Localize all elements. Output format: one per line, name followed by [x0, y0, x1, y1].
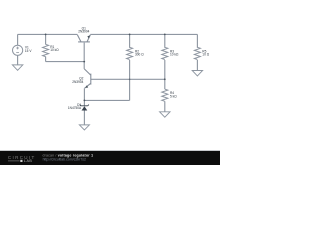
- wire Q1 base vertical: [83, 43, 85, 62]
- wire R4 top lead: [164, 79, 166, 89]
- junction crossing R2 leg / base wire: [129, 79, 131, 81]
- wire R1 top lead: [45, 34, 47, 44]
- svg-text:10 kΩ: 10 kΩ: [50, 48, 59, 52]
- wire top rail left (V1 to Q1 collector): [18, 33, 78, 35]
- ground below V1: [12, 65, 22, 70]
- junction node R3 top: [164, 34, 166, 36]
- wire R5 bottom lead: [196, 60, 198, 70]
- svg-text:2N3904: 2N3904: [78, 30, 89, 34]
- wire V1 top lead: [17, 34, 19, 45]
- wire R1 bottom to Q1 base node: [46, 61, 85, 63]
- junction node Q1 base / R1 / Q2 collector: [83, 61, 85, 63]
- junction node zener / Q2 emitter / R2 leg: [84, 100, 86, 102]
- svg-text:10 kΩ: 10 kΩ: [170, 53, 179, 57]
- junction node divider R3-R4 / Q2 base: [164, 78, 166, 80]
- resistor R3: [162, 47, 168, 59]
- wire V1 bottom lead: [17, 55, 19, 64]
- svg-text:2N3904: 2N3904: [72, 80, 83, 84]
- wire D1 top lead: [83, 100, 85, 105]
- wire D1 bottom lead: [83, 111, 85, 125]
- wire R5 top lead: [196, 34, 198, 47]
- wire R4 bottom lead: [164, 101, 166, 111]
- svg-text:http://circuitlab.com/c2kr7s2: http://circuitlab.com/c2kr7s2: [43, 158, 86, 162]
- wire zener node horizontal to R2 leg: [84, 99, 129, 101]
- resistor R5: [194, 47, 200, 59]
- arrow Q1 emitter (NPN): [87, 35, 90, 38]
- arrow Q2 emitter (NPN): [85, 85, 88, 88]
- svg-text:5 kΩ: 5 kΩ: [170, 95, 177, 99]
- wire Q2 emitter down to zener node: [83, 88, 85, 100]
- wire R2 top lead: [129, 34, 131, 47]
- zener diode D1: [82, 106, 88, 110]
- wire R2 bottom leg vertical: [129, 60, 131, 100]
- ground below R5: [192, 71, 202, 76]
- footer bar: [0, 149, 220, 152]
- svg-text:10 Ω: 10 Ω: [202, 53, 209, 57]
- wire node A to Q2 collector: [83, 62, 85, 69]
- resistor R1: [43, 44, 49, 56]
- svg-text:300 Ω: 300 Ω: [135, 53, 144, 57]
- ground below D1: [79, 125, 89, 130]
- transistor Q2: [84, 69, 91, 88]
- wire Q2 base to R3-R4 divider: [91, 78, 165, 80]
- transistor Q1: [77, 35, 90, 42]
- ground below R4: [160, 112, 170, 117]
- wire R1 bottom lead: [45, 57, 47, 62]
- svg-text:LAB: LAB: [24, 159, 32, 163]
- svg-text:15 V: 15 V: [25, 49, 32, 53]
- wire R3 top lead: [164, 34, 166, 47]
- svg-text:1N4750A: 1N4750A: [68, 106, 82, 110]
- wire R3 bottom lead: [164, 60, 166, 79]
- resistor R2: [127, 47, 133, 59]
- junction node R2 top: [129, 34, 131, 36]
- resistor R4: [162, 89, 168, 101]
- junction node R1 top: [45, 34, 47, 36]
- voltage source V1: [13, 45, 23, 55]
- wire top rail right (Q1 emitter to R5): [90, 33, 197, 35]
